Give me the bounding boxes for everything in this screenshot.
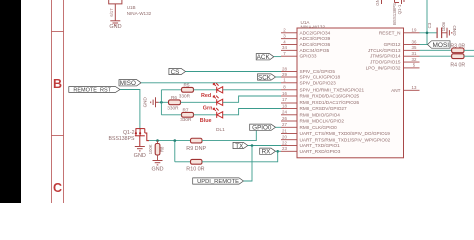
left pin names: [300, 30, 391, 154]
svg-text:RMII_CLK/GPIO0: RMII_CLK/GPIO0: [300, 125, 338, 130]
wire green LED dogleg to pin 16: [223, 96, 281, 102]
svg-text:C3: C3: [427, 22, 432, 28]
svg-text:JTMS/GPIO14: JTMS/GPIO14: [370, 54, 401, 59]
U1B pin 6/17 lead: [114, 4, 116, 21]
resistor R4: [452, 54, 464, 59]
svg-text:GND: GND: [109, 24, 121, 30]
svg-text:RMII_MDCLK/GPIO2: RMII_MDCLK/GPIO2: [300, 119, 345, 124]
svg-text:21: 21: [282, 128, 287, 133]
svg-text:32: 32: [412, 57, 417, 62]
svg-text:R3 0R: R3 0R: [450, 43, 465, 49]
global label GPIO0: [250, 124, 276, 130]
resistor R6: [169, 100, 181, 105]
svg-text:17: 17: [282, 97, 287, 102]
svg-text:UART_TXD/GPIO1: UART_TXD/GPIO1: [300, 143, 341, 148]
wire red LED row left: [161, 89, 181, 91]
svg-text:RMII_RXD0/DAC16/GPIO25: RMII_RXD0/DAC16/GPIO25: [300, 94, 360, 99]
ground symbol right of C3 (pointing right): [447, 28, 452, 38]
resistor R7: [182, 112, 194, 117]
wire RESET_N horizontal to C3: [420, 32, 438, 34]
svg-text:MISO: MISO: [120, 80, 136, 87]
svg-text:19: 19: [412, 28, 417, 33]
svg-text:SPIV_CS/GPIO5: SPIV_CS/GPIO5: [300, 69, 336, 74]
ground symbol under Q1-2: [135, 147, 145, 151]
svg-text:UPDI_REMOTE: UPDI_REMOTE: [197, 179, 239, 185]
svg-text:CS: CS: [171, 69, 180, 76]
junction RX row: [276, 150, 279, 153]
svg-text:GPIO0: GPIO0: [252, 125, 272, 132]
svg-text:C: C: [53, 181, 62, 195]
svg-text:6/17: 6/17: [109, 8, 114, 17]
svg-text:RX: RX: [262, 149, 272, 156]
right pin stubs: [404, 33, 420, 91]
svg-text:20: 20: [282, 135, 287, 140]
wire R9 to GPIO0 label: [202, 130, 256, 140]
svg-text:U1B: U1B: [127, 5, 136, 10]
wire UPDI_REMOTE up to TX net: [244, 146, 253, 182]
svg-text:GND: GND: [152, 166, 164, 172]
wire to R10: [175, 161, 191, 163]
capacitor C3: [437, 28, 442, 39]
wire R10 to RX row: [202, 151, 278, 162]
svg-text:R9 DNP: R9 DNP: [186, 146, 206, 152]
wire vertical LED rows branch: [160, 90, 162, 115]
svg-text:SCK: SCK: [258, 74, 272, 81]
svg-text:TX: TX: [235, 143, 244, 150]
svg-text:UART_RTS/RMII_TXD1/SPIV_WP/GPI: UART_RTS/RMII_TXD1/SPIV_WP/GPIO02: [300, 137, 391, 142]
svg-text:22: 22: [282, 140, 287, 145]
wire R5 to red LED: [194, 89, 217, 91]
svg-text:330R: 330R: [180, 117, 192, 122]
svg-text:Red: Red: [201, 93, 211, 99]
global label MISO: [119, 80, 141, 86]
global label CS: [169, 68, 186, 74]
svg-text:13: 13: [412, 85, 417, 90]
frame border lines: [52, 0, 64, 203]
wire JTCLK to R3: [420, 49, 452, 51]
svg-text:REMOTE_RST: REMOTE_RST: [73, 88, 111, 94]
connector U1B (partial box at top): [109, 0, 122, 4]
ground symbol left of R6 (pointing left): [151, 97, 159, 107]
svg-text:RMII_CRSDV/GPIO27: RMII_CRSDV/GPIO27: [300, 106, 348, 111]
svg-text:ADC3/GPIO39: ADC3/GPIO39: [300, 36, 331, 41]
Q1-2 internal junction dots: [135, 132, 137, 134]
svg-text:GND: GND: [143, 97, 148, 108]
svg-text:RESET_N: RESET_N: [379, 30, 401, 35]
svg-text:24: 24: [282, 110, 287, 115]
wire TX to pin 22: [248, 145, 281, 147]
svg-text:R6: R6: [171, 95, 177, 100]
svg-text:28: 28: [282, 66, 287, 71]
svg-text:GND: GND: [134, 153, 146, 159]
LED green (DL1 b): [213, 96, 222, 106]
transistor Q1-1 (cut off at top edge): [395, 0, 405, 4]
global label UPDI_REMOTE: [193, 178, 244, 184]
resistor R5: [182, 87, 194, 92]
svg-text:MOSI: MOSI: [432, 42, 449, 49]
wire drain row Q1-2 to R9: [149, 140, 191, 142]
left pin stubs: [281, 33, 297, 152]
svg-text:ACK: ACK: [257, 54, 271, 61]
svg-text:29: 29: [282, 72, 287, 77]
svg-text:26: 26: [282, 116, 287, 121]
svg-text:R10 0R: R10 0R: [186, 166, 204, 172]
svg-text:SPIV_DI/GPIO23: SPIV_DI/GPIO23: [300, 81, 337, 86]
resistor R3: [452, 48, 464, 53]
junction R8 top: [156, 139, 159, 142]
svg-text:35: 35: [412, 45, 417, 50]
global label RX: [260, 148, 276, 154]
svg-text:18: 18: [282, 103, 287, 108]
svg-text:100n: 100n: [441, 21, 446, 31]
global label ACK: [256, 54, 274, 60]
svg-text:ADC2/GPIO34: ADC2/GPIO34: [300, 30, 331, 35]
wire ACK to pin 7: [274, 56, 281, 58]
svg-text:27: 27: [282, 122, 287, 127]
global label MOSI (points left): [428, 41, 451, 48]
LED red (DL1 a): [213, 83, 222, 93]
svg-text:36: 36: [412, 39, 417, 44]
svg-text:GN: GN: [375, 0, 380, 6]
svg-text:ANT: ANT: [391, 88, 401, 93]
svg-text:Q1-1: Q1-1: [397, 4, 402, 14]
resistor R9: [191, 138, 203, 143]
wire R3 to edge: [464, 49, 474, 51]
C3 lead to ground: [442, 32, 448, 34]
svg-text:JTCLK/GPIO13: JTCLK/GPIO13: [368, 48, 401, 53]
svg-text:ADC34/GPI35: ADC34/GPI35: [300, 48, 330, 53]
svg-text:ADC4/GPIO36: ADC4/GPIO36: [300, 42, 331, 47]
R8 lead bottom: [157, 155, 159, 161]
ground symbol under R8: [153, 161, 163, 165]
wire CS to pin 28: [186, 71, 282, 73]
svg-text:LPO_IN/GPIO32: LPO_IN/GPIO32: [366, 65, 401, 70]
wire branch down to R10: [174, 141, 176, 162]
wire RESET_N net vertical: [426, 0, 428, 45]
wire branch to R7: [161, 114, 181, 116]
svg-text:34: 34: [282, 45, 287, 50]
svg-text:B: B: [53, 77, 62, 91]
svg-text:RMII_RXD1/DAC17/GPIO26: RMII_RXD1/DAC17/GPIO26: [300, 100, 360, 105]
svg-text:BSS138PS: BSS138PS: [109, 136, 135, 142]
left pin numbers: [282, 28, 287, 152]
wire REMOTE_RST to gate of Q1-2: [120, 90, 140, 129]
wire MISO to pin 1: [141, 82, 281, 84]
svg-text:NINA-W132: NINA-W132: [301, 25, 326, 30]
svg-text:UART_RXD/GPIO3: UART_RXD/GPIO3: [300, 149, 341, 154]
wire GPIO0 to pin 27: [276, 126, 282, 128]
right pin numbers: [412, 28, 417, 91]
svg-text:16: 16: [282, 91, 287, 96]
svg-text:31: 31: [412, 51, 417, 56]
junction R10 branch: [174, 139, 177, 142]
junction LED common: [160, 101, 163, 104]
global label SCK: [258, 74, 276, 80]
svg-text:JTDO/GPIO15: JTDO/GPIO15: [370, 60, 401, 65]
svg-text:UART_CTS/RMII_TXD0/SPIV_DO/GPI: UART_CTS/RMII_TXD0/SPIV_DO/GPIO19: [300, 131, 391, 136]
junction RESET_N: [426, 32, 429, 35]
svg-text:DL1: DL1: [216, 127, 225, 133]
svg-text:GPIO33: GPIO33: [300, 54, 317, 59]
svg-text:R5: R5: [184, 82, 190, 87]
svg-text:Grn: Grn: [203, 106, 213, 112]
wire GPIO12 to MOSI: [420, 44, 428, 46]
svg-text:100K: 100K: [148, 144, 153, 154]
wire red LED to pin 8: [223, 89, 281, 91]
svg-text:R7: R7: [183, 108, 189, 113]
svg-text:Blue: Blue: [200, 118, 212, 124]
wire R6 to green LED: [181, 101, 217, 103]
ground symbol under U1B: [110, 21, 120, 25]
wire blue LED dogleg to pin 18: [223, 109, 281, 115]
wire green LED row: [159, 101, 169, 103]
IC U1A body: [297, 28, 404, 158]
R8 lead top: [157, 141, 159, 144]
svg-text:330R: 330R: [167, 106, 179, 111]
svg-text:330R: 330R: [179, 94, 191, 99]
junction TX/UPDI: [251, 144, 254, 147]
svg-text:23: 23: [282, 146, 287, 151]
wire R7 to blue LED: [194, 114, 217, 116]
transistor Q1-2: [135, 129, 149, 147]
resistor R8 (vertical): [155, 144, 160, 156]
right pin names: [366, 30, 401, 93]
resistor R10: [191, 159, 203, 164]
wire R4 to edge: [464, 55, 474, 57]
svg-text:GND: GND: [452, 25, 457, 36]
svg-text:SPIV_CLK/GPIO18: SPIV_CLK/GPIO18: [300, 75, 341, 80]
wire JTMS to R4: [420, 55, 452, 57]
svg-text:GPIO12: GPIO12: [384, 42, 401, 47]
svg-text:BSS138PS: BSS138PS: [392, 3, 397, 25]
black margin strip: [0, 0, 21, 203]
wire RX to pin 23: [276, 150, 282, 152]
svg-text:RMII_MDIO/GPIO4: RMII_MDIO/GPIO4: [300, 113, 341, 118]
svg-text:SPIV_HD/RMII_TXEN/GPIO21: SPIV_HD/RMII_TXEN/GPIO21: [300, 88, 365, 93]
wire SCK to pin 29: [276, 76, 282, 78]
svg-text:R8: R8: [159, 146, 164, 152]
global label REMOTE_RST: [69, 87, 120, 93]
global label TX: [233, 142, 248, 148]
svg-text:NINA-W132: NINA-W132: [127, 11, 152, 16]
ground symbol fragment top: [381, 0, 383, 4]
svg-text:R4 0R: R4 0R: [450, 62, 465, 68]
LED blue (DL1 c): [213, 108, 222, 118]
